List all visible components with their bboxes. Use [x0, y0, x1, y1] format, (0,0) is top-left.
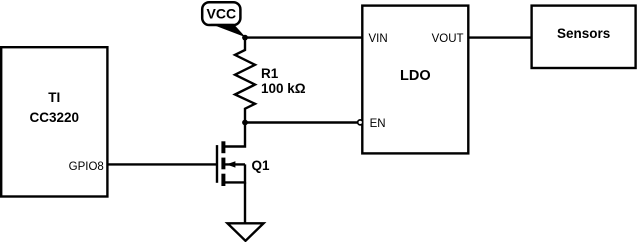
resistor R1	[235, 38, 306, 123]
wire source to ground	[244, 182, 246, 223]
ground	[228, 223, 264, 241]
svg-text:VIN: VIN	[369, 33, 388, 45]
block TI CC3220	[1, 47, 107, 196]
svg-text:VOUT: VOUT	[432, 33, 464, 45]
svg-text:100 kΩ: 100 kΩ	[261, 81, 306, 96]
svg-text:Q1: Q1	[252, 158, 271, 173]
wire node to EN	[245, 121, 358, 123]
block Sensors	[532, 6, 636, 68]
wire VCC node to VIN	[245, 36, 362, 38]
svg-text:TI: TI	[48, 90, 60, 105]
svg-text:EN: EN	[370, 118, 386, 130]
block body Sensors	[532, 6, 636, 68]
svg-text:VCC: VCC	[207, 6, 237, 22]
VCC flag outline	[202, 2, 240, 25]
channel bar drain	[221, 141, 225, 153]
wire GPIO8 to gate	[108, 163, 217, 165]
source lead	[224, 164, 245, 182]
node A: VCC junction	[242, 35, 248, 41]
node B: EN junction	[242, 120, 248, 126]
body lead	[224, 163, 245, 165]
resistor zigzag	[235, 38, 255, 123]
channel bar source	[221, 174, 225, 186]
svg-text:GPIO8: GPIO8	[69, 161, 104, 173]
net label VCC	[202, 2, 245, 37]
gate bar	[216, 145, 218, 183]
block body LDO	[362, 6, 468, 154]
block body TI CC3220	[1, 47, 107, 196]
channel bar body	[221, 158, 225, 170]
svg-text:R1: R1	[261, 66, 279, 81]
svg-text:Sensors: Sensors	[557, 26, 610, 41]
wire VOUT to Sensors	[469, 36, 532, 38]
drain lead	[224, 123, 245, 147]
svg-text:LDO: LDO	[400, 68, 431, 84]
svg-text:CC3220: CC3220	[30, 110, 80, 125]
VCC flag tail	[211, 24, 246, 37]
body arrow	[226, 161, 235, 167]
block LDO U1	[362, 6, 468, 154]
transistor Q1 (N-MOSFET)	[217, 123, 270, 187]
EN pin bubble	[358, 120, 363, 125]
